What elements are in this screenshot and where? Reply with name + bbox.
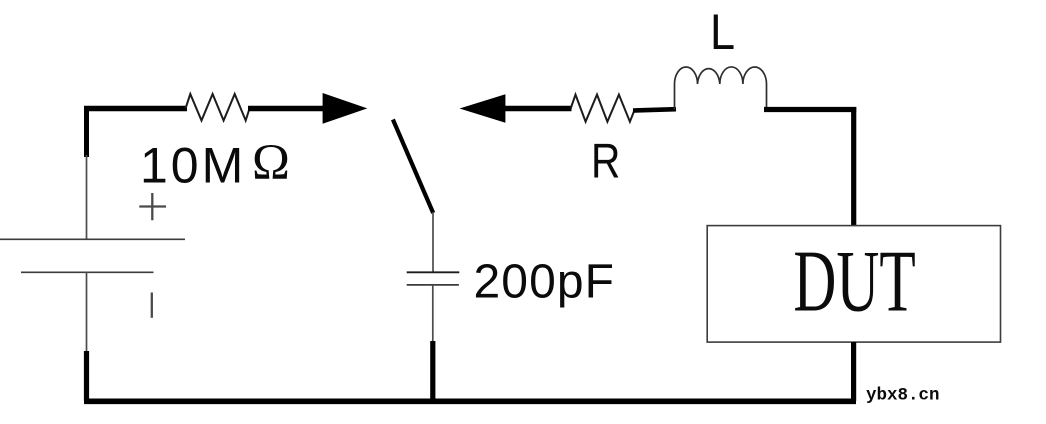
arrowhead left (charge direction) [460, 94, 506, 123]
wire top-left corner (thick) [84, 107, 89, 157]
DUT box [707, 226, 1000, 343]
label L [710, 5, 735, 61]
wire left bottom riser (thick) [84, 351, 89, 401]
svg-text:DUT: DUT [793, 233, 915, 330]
inductor L coil [675, 67, 767, 110]
svg-text:Ω: Ω [252, 135, 290, 191]
arrowhead right (discharge direction) [323, 93, 368, 124]
svg-text:10M: 10M [140, 138, 246, 194]
wire capacitor bottom lead thin [432, 285, 434, 343]
capacitor C1 top plate [407, 271, 460, 273]
label 200pF [474, 255, 616, 308]
wire arrow tail (thick) [504, 106, 572, 111]
label DUT [793, 233, 915, 330]
svg-text:ybx8.cn: ybx8.cn [866, 386, 940, 406]
svg-text:L: L [710, 5, 735, 61]
wire switch to capacitor thin [432, 212, 434, 272]
wire left vertical thin (battery bottom lead) [86, 272, 88, 353]
label 10M [140, 138, 246, 194]
wire resistor to arrow (thick) [248, 106, 324, 112]
battery V1 bottom plate [21, 271, 154, 273]
wire bottom bus (thick) [84, 398, 856, 404]
svg-text:R: R [591, 133, 620, 188]
capacitor C1 bottom plate [407, 284, 459, 286]
watermark ybx8.cn [866, 386, 940, 406]
switch S1 blade [393, 120, 433, 214]
label ohm symbol [252, 135, 290, 191]
wire capacitor bottom riser (thick) [430, 341, 435, 401]
resistor R zigzag [571, 95, 635, 122]
battery V1 top plate [0, 238, 185, 240]
wire top-left horizontal (thick) [84, 106, 187, 111]
battery plus sign [139, 193, 166, 220]
wire right vertical to DUT (thick) [851, 107, 856, 226]
wire inductor to corner (thick) [764, 107, 856, 112]
wire left vertical thin (battery top lead) [86, 155, 88, 239]
label R [591, 133, 620, 188]
battery minus mark [151, 293, 153, 318]
svg-text:200pF: 200pF [474, 255, 616, 308]
resistor 10M ohm zigzag [186, 94, 250, 121]
wire DUT bottom riser (thick) [851, 342, 856, 401]
wire resistor R to inductor (thick) [633, 109, 676, 110]
